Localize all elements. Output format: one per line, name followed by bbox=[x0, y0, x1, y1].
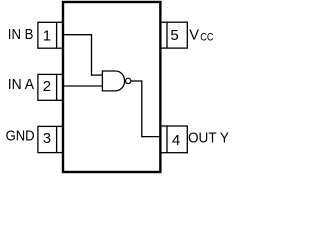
pin 2 box bbox=[38, 74, 63, 100]
wire pin1 vertical segment bbox=[91, 34, 93, 76]
svg-text:IN A: IN A bbox=[8, 77, 35, 93]
svg-text:5: 5 bbox=[170, 27, 178, 44]
label VCC bbox=[189, 28, 213, 44]
wire output to pin4 segment bbox=[142, 136, 160, 138]
svg-text:CC: CC bbox=[200, 32, 214, 44]
svg-text:GND: GND bbox=[6, 129, 35, 145]
svg-text:V: V bbox=[189, 28, 199, 44]
wire pin1 horizontal segment bbox=[63, 34, 92, 36]
svg-text:2: 2 bbox=[43, 78, 51, 95]
pin 5 box bbox=[160, 22, 187, 48]
pin 4 box bbox=[160, 126, 187, 153]
wire output vertical segment bbox=[141, 80, 143, 137]
IC package body U1 bbox=[63, 2, 160, 172]
wire pin2 to gate bottom input bbox=[63, 85, 102, 87]
wire gate output horizontal segment bbox=[131, 80, 142, 82]
svg-text:IN B: IN B bbox=[8, 27, 34, 43]
svg-text:OUT Y: OUT Y bbox=[188, 131, 229, 147]
svg-text:3: 3 bbox=[43, 130, 51, 147]
NAND gate U1 body bbox=[102, 71, 124, 91]
svg-text:1: 1 bbox=[43, 28, 51, 45]
wire gate top input segment bbox=[92, 74, 103, 76]
pin 3 box bbox=[38, 126, 63, 152]
pin 1 box bbox=[38, 22, 63, 48]
NAND gate inversion bubble bbox=[126, 78, 131, 83]
svg-text:4: 4 bbox=[172, 132, 180, 149]
